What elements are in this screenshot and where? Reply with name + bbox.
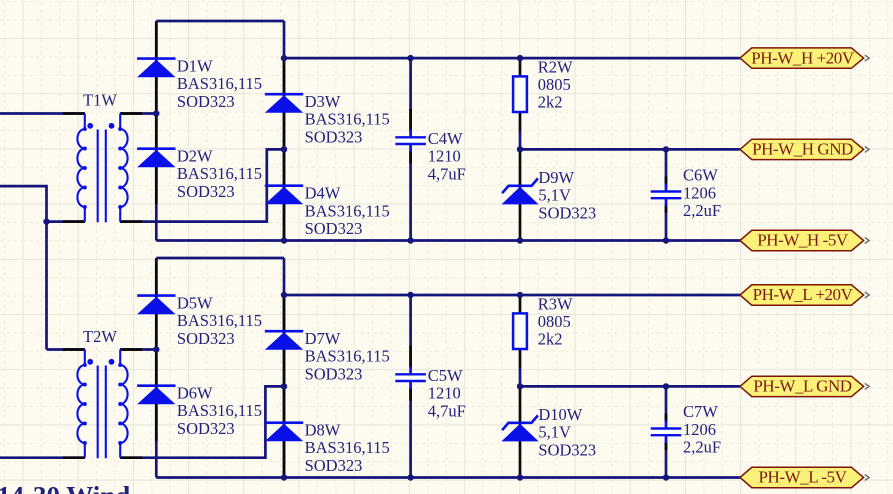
svg-text:D4W: D4W [305, 184, 341, 203]
svg-text:2k2: 2k2 [538, 93, 563, 112]
svg-text:D1W: D1W [177, 56, 213, 75]
svg-text:D3W: D3W [305, 92, 341, 111]
svg-text:PH-W_H -5V: PH-W_H -5V [757, 231, 849, 250]
svg-text:C6W: C6W [683, 166, 718, 185]
svg-text:BAS316,115: BAS316,115 [177, 164, 262, 183]
svg-text:5,1V: 5,1V [538, 186, 571, 205]
svg-text:4,7uF: 4,7uF [428, 164, 466, 183]
svg-text:D6W: D6W [177, 384, 213, 403]
svg-text:C7W: C7W [683, 402, 718, 421]
svg-text:BAS316,115: BAS316,115 [177, 74, 262, 93]
svg-text:SOD323: SOD323 [305, 456, 363, 475]
svg-text:SOD323: SOD323 [177, 92, 235, 111]
svg-text:SOD323: SOD323 [177, 329, 235, 348]
svg-text:SOD323: SOD323 [538, 203, 596, 222]
svg-text:SOD323: SOD323 [177, 182, 235, 201]
svg-text:SOD323: SOD323 [305, 127, 363, 146]
svg-text:R3W: R3W [538, 294, 573, 313]
svg-text:C4W: C4W [428, 129, 463, 148]
svg-text:SOD323: SOD323 [177, 419, 235, 438]
svg-text:SOD323: SOD323 [538, 440, 596, 459]
svg-text:SOD323: SOD323 [305, 364, 363, 383]
svg-text:BAS316,115: BAS316,115 [177, 311, 262, 330]
svg-text:BAS316,115: BAS316,115 [305, 110, 390, 129]
svg-text:T1W: T1W [83, 91, 117, 110]
svg-text:2k2: 2k2 [538, 330, 563, 349]
svg-text:D10W: D10W [538, 405, 582, 424]
svg-text:1206: 1206 [683, 183, 716, 202]
svg-text:5,1V: 5,1V [538, 423, 571, 442]
svg-text:PH-W_L GND: PH-W_L GND [753, 377, 851, 396]
svg-text:R2W: R2W [538, 57, 573, 76]
svg-text:0805: 0805 [538, 312, 571, 331]
svg-text:4,7uF: 4,7uF [428, 401, 466, 420]
svg-text:D8W: D8W [305, 421, 341, 440]
svg-text:D5W: D5W [177, 293, 213, 312]
svg-text:C5W: C5W [428, 366, 463, 385]
svg-text:14-30 Wind: 14-30 Wind [0, 481, 130, 494]
svg-text:BAS316,115: BAS316,115 [177, 401, 262, 420]
svg-text:D9W: D9W [538, 168, 574, 187]
svg-text:PH-W_H +20V: PH-W_H +20V [751, 48, 855, 67]
svg-text:BAS316,115: BAS316,115 [305, 347, 390, 366]
svg-text:PH-W_L -5V: PH-W_L -5V [759, 468, 848, 487]
svg-text:PH-W_H GND: PH-W_H GND [752, 140, 853, 159]
svg-text:0805: 0805 [538, 75, 571, 94]
svg-text:1206: 1206 [683, 420, 716, 439]
svg-text:BAS316,115: BAS316,115 [305, 438, 390, 457]
svg-text:2,2uF: 2,2uF [683, 201, 721, 220]
svg-text:1210: 1210 [428, 147, 461, 166]
svg-text:1210: 1210 [428, 384, 461, 403]
svg-text:T2W: T2W [83, 327, 117, 346]
svg-text:BAS316,115: BAS316,115 [305, 201, 390, 220]
svg-text:D2W: D2W [177, 147, 213, 166]
svg-text:D7W: D7W [305, 329, 341, 348]
svg-text:2,2uF: 2,2uF [683, 438, 721, 457]
svg-text:PH-W_L +20V: PH-W_L +20V [753, 285, 854, 304]
svg-text:SOD323: SOD323 [305, 219, 363, 238]
